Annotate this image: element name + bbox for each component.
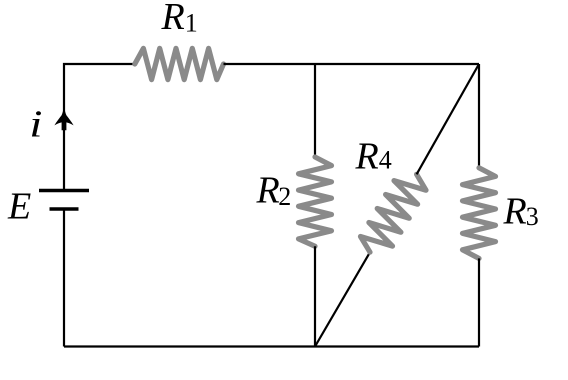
wire: middle branch upper segment bbox=[314, 64, 316, 157]
svg-text:E: E bbox=[7, 185, 31, 227]
resistor R1 bbox=[135, 48, 224, 79]
battery E: long (positive) plate bbox=[39, 189, 89, 192]
resistor R3 bbox=[463, 168, 496, 259]
resistor R4 bbox=[361, 174, 427, 252]
resistor R2 bbox=[299, 157, 332, 246]
current arrow i (arrowhead on left wire, pointing up) bbox=[54, 107, 73, 130]
wire: right branch lower segment to bottom-right corner bbox=[478, 258, 480, 346]
svg-text:R3: R3 bbox=[503, 191, 539, 233]
wire: diagonal lower segment from bottom junction to R4 bbox=[315, 252, 370, 346]
wire: middle branch lower segment to bottom junction bbox=[314, 246, 316, 346]
wire: top-left segment from top-left corner to R1 bbox=[64, 64, 135, 191]
wire: right branch upper segment bbox=[478, 64, 480, 168]
wire: bottom wire bbox=[64, 345, 479, 347]
wire: left segment below battery to bottom-left corner bbox=[63, 209, 65, 347]
svg-text:R2: R2 bbox=[256, 169, 292, 211]
wire: top segment from R1 to top-right corner bbox=[224, 63, 480, 65]
svg-text:R4: R4 bbox=[355, 135, 392, 177]
wire: diagonal upper segment from R4 to top-right corner bbox=[417, 64, 479, 174]
battery E: short (negative) plate bbox=[50, 207, 79, 210]
svg-text:i: i bbox=[29, 104, 42, 146]
svg-text:R1: R1 bbox=[161, 0, 198, 38]
